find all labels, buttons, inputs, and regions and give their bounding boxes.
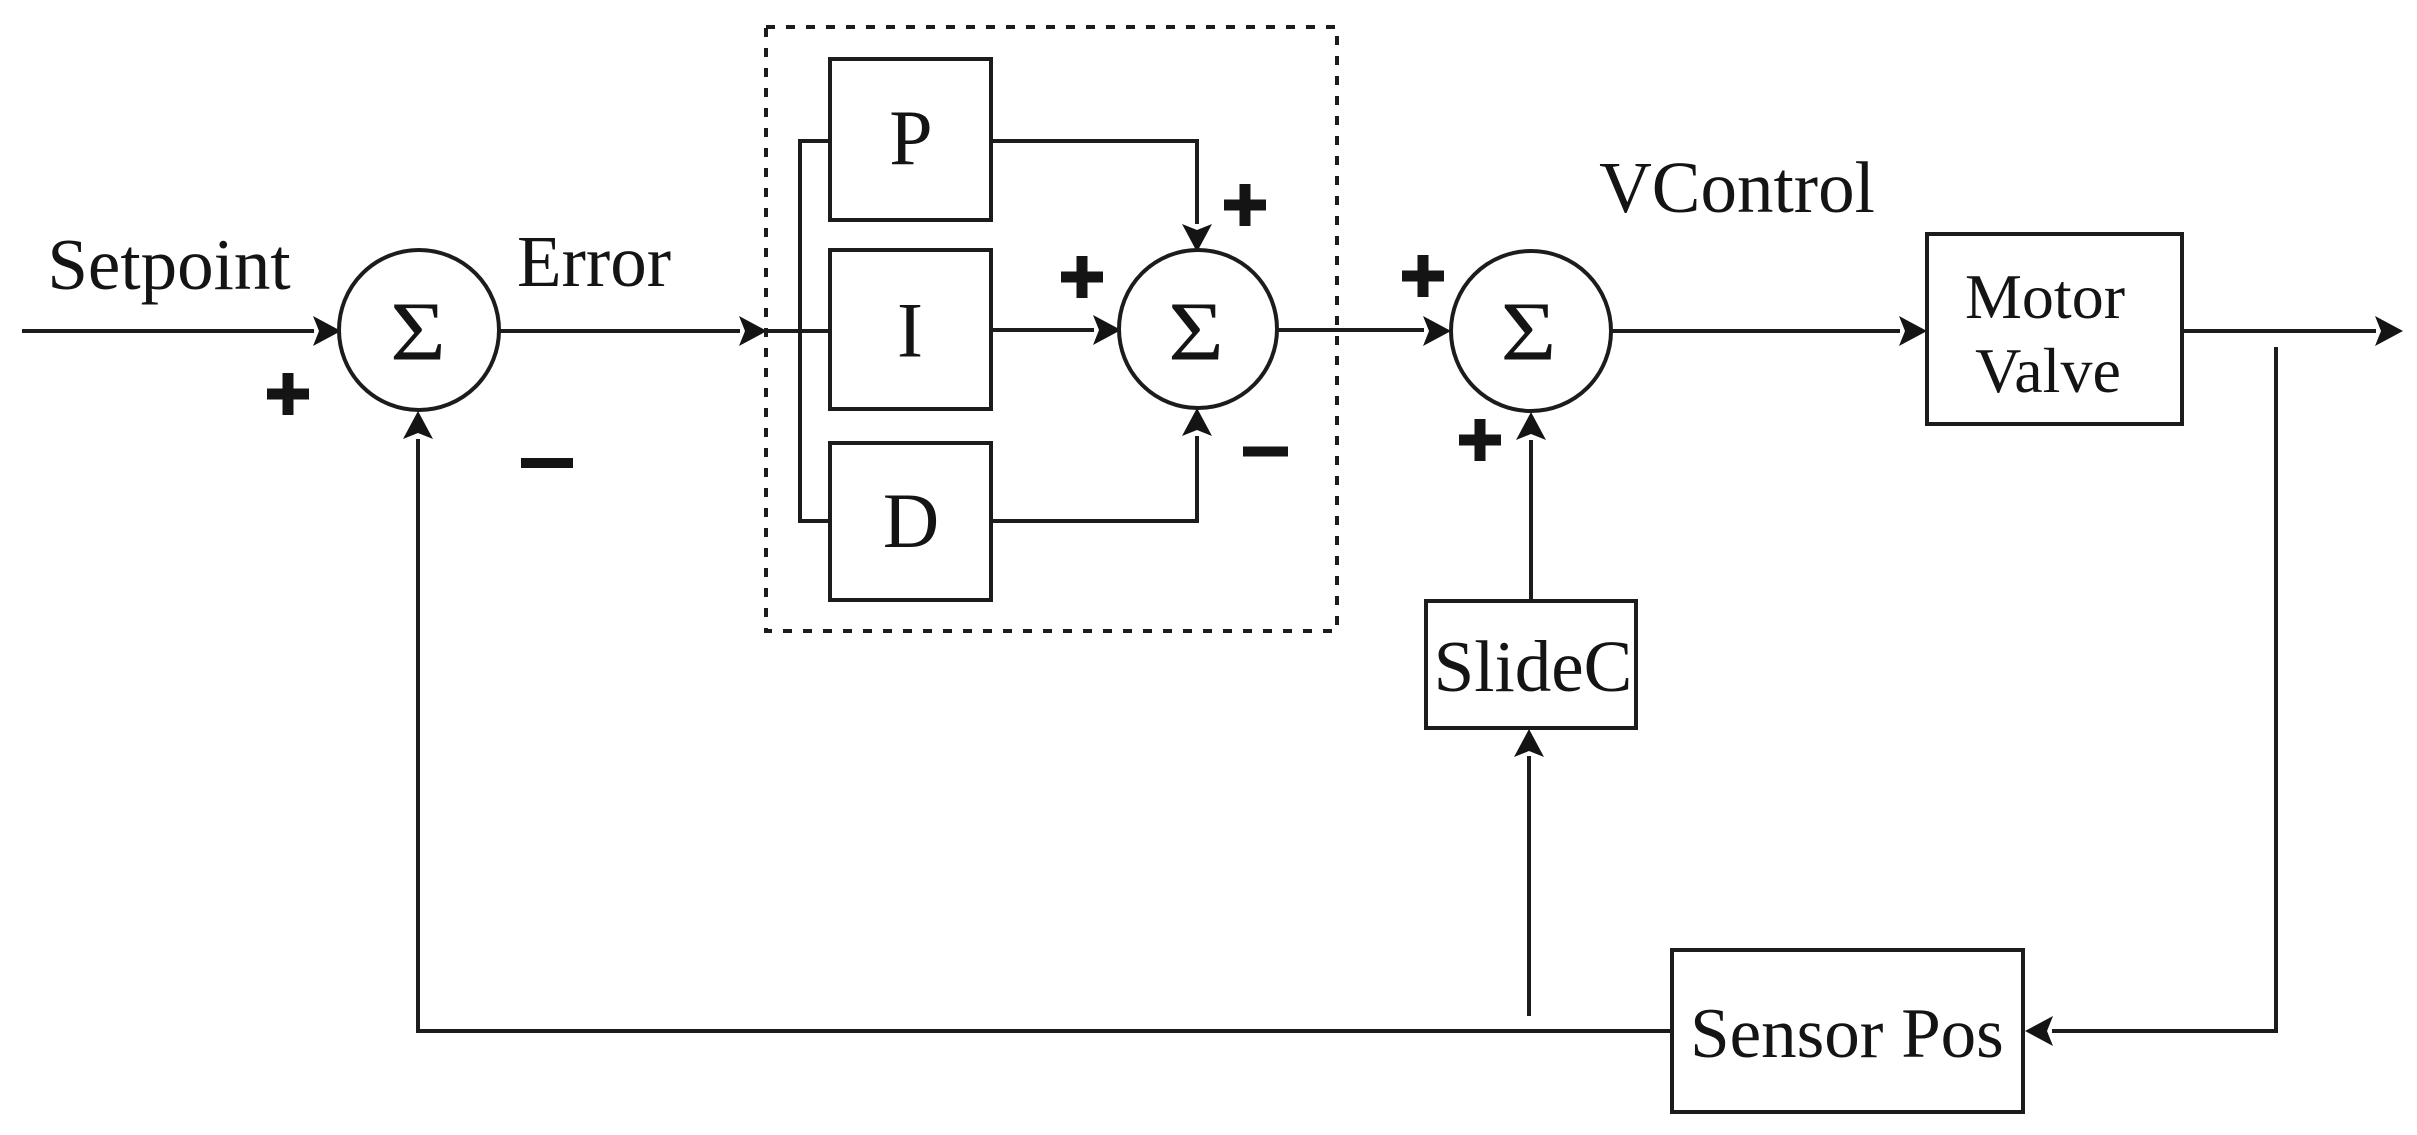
arrowhead: into S3 (right) bbox=[1423, 316, 1451, 346]
arrowhead: error into PID block bbox=[739, 316, 767, 346]
block Motor Valve bbox=[1927, 234, 2182, 424]
arrowhead: into Motor Valve (right) bbox=[1899, 316, 1927, 346]
block P bbox=[830, 59, 991, 220]
wire: feedback drop from output bbox=[2274, 347, 2278, 1033]
wire: S2 output to S3 bbox=[1277, 328, 1424, 332]
plus sign: P input polarity at S2 bbox=[1224, 184, 1266, 226]
wire: feedback rise to S1 bbox=[416, 439, 420, 1033]
wire: bus to D block bbox=[798, 519, 830, 523]
svg-text:VControl: VControl bbox=[1599, 147, 1875, 228]
arrowhead: setpoint into summing junction S1 bbox=[313, 316, 341, 346]
svg-text:Σ: Σ bbox=[390, 286, 446, 378]
wire: error to I block bbox=[766, 329, 830, 333]
svg-text:Motor: Motor bbox=[1965, 261, 2125, 332]
arrowhead: I into S2 (right) bbox=[1093, 315, 1121, 345]
wire: setpoint input bbox=[22, 329, 314, 333]
svg-text:Error: Error bbox=[517, 221, 671, 302]
minus sign: feedback polarity at S1 bbox=[521, 458, 573, 468]
wire: S3 output to Motor Valve bbox=[1611, 329, 1900, 333]
arrowhead: feedback into S1 (up) bbox=[403, 411, 433, 439]
svg-text:P: P bbox=[889, 94, 932, 181]
block D bbox=[830, 443, 991, 600]
summing junction S1 bbox=[339, 250, 499, 410]
block SlideC bbox=[1426, 601, 1636, 728]
wire: Motor Valve output bbox=[2182, 329, 2376, 333]
minus sign: D input polarity at S2 bbox=[1243, 447, 1288, 457]
svg-text:Sensor Pos: Sensor Pos bbox=[1690, 995, 2004, 1073]
wire: P output to S2 top bbox=[991, 141, 1197, 224]
wire: feedback into Sensor Pos bbox=[2052, 1029, 2276, 1033]
block I bbox=[830, 250, 991, 409]
svg-text:I: I bbox=[897, 287, 923, 374]
wire: D output to S2 bottom bbox=[991, 436, 1197, 521]
summing junction S3 bbox=[1451, 251, 1611, 411]
arrowhead: into Sensor Pos (left) bbox=[2025, 1016, 2053, 1046]
plus sign: I input polarity at S2 bbox=[1061, 256, 1103, 298]
arrowhead: system output (right) bbox=[2375, 316, 2403, 346]
svg-text:D: D bbox=[883, 477, 939, 564]
block Sensor Pos bbox=[1672, 950, 2023, 1112]
plus sign: SlideC input polarity at S3 bbox=[1459, 419, 1501, 461]
svg-text:SlideC: SlideC bbox=[1434, 626, 1633, 707]
PID controller dashed boundary bbox=[766, 27, 1337, 631]
summing junction S2 bbox=[1119, 250, 1277, 408]
arrowhead: SlideC into S3 (up) bbox=[1516, 412, 1546, 440]
svg-text:Setpoint: Setpoint bbox=[47, 224, 290, 305]
arrowhead: D into S2 (up) bbox=[1182, 408, 1212, 436]
svg-text:Σ: Σ bbox=[1501, 286, 1557, 378]
plus sign: PID input polarity at S3 bbox=[1402, 255, 1444, 297]
wire: I output to S2 left bbox=[991, 328, 1094, 332]
wire: bus to P block bbox=[798, 139, 830, 143]
arrowhead: into SlideC (up) bbox=[1514, 729, 1544, 757]
svg-text:Valve: Valve bbox=[1975, 335, 2121, 406]
wire: feedback tap to SlideC bbox=[1527, 756, 1531, 1016]
wire: feedback bottom run bbox=[416, 1029, 1672, 1033]
svg-text:Σ: Σ bbox=[1168, 286, 1224, 378]
wire: error output of S1 bbox=[499, 329, 740, 333]
plus sign: setpoint input polarity bbox=[267, 373, 309, 415]
arrowhead: P into S2 (down) bbox=[1182, 224, 1212, 252]
wire: SlideC output to S3 bbox=[1529, 440, 1533, 601]
wire: branch bus vertical bbox=[798, 139, 802, 523]
